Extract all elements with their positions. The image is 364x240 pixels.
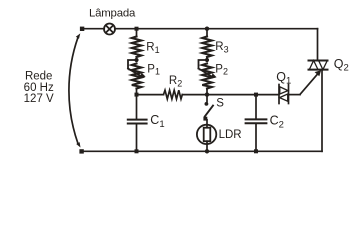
resistor R1	[132, 37, 142, 58]
resistor R3	[202, 37, 212, 58]
svg-text:LDR: LDR	[219, 129, 242, 141]
switch S top contact	[205, 102, 209, 106]
node left bottom (square terminal)	[79, 149, 83, 153]
wire P2 down to mid rail	[206, 89, 208, 95]
switch S bottom contact	[203, 117, 207, 121]
capacitor C2	[246, 119, 267, 123]
capacitor C1	[128, 120, 147, 124]
switch S blade	[205, 106, 213, 117]
node junction C2 top	[254, 93, 258, 97]
triac Q2 bottom bar	[309, 69, 328, 71]
wire mid rail S junction to C2	[207, 94, 256, 96]
node dot R1/P1 wiper	[134, 58, 138, 62]
triac Q2 top bar	[309, 60, 328, 62]
arrowhead bottom of arc	[76, 142, 80, 147]
node junction mid/S	[205, 92, 209, 96]
wire lead R3 to P2	[206, 57, 208, 60]
wire lead top of R1	[136, 31, 138, 37]
diac Q1 left plate	[278, 85, 280, 104]
wire right vertical MT2	[317, 29, 319, 61]
node junction top of R3	[205, 27, 209, 31]
wire bottom rail	[82, 150, 323, 152]
wire P1 down to mid rail	[136, 89, 138, 95]
wire lead R1 to P1	[136, 57, 138, 60]
potentiometer P2 body	[202, 64, 212, 89]
svg-text:R3: R3	[215, 41, 228, 54]
node dot R3/P2 wiper	[205, 58, 209, 62]
diac Q1 upper triangle	[280, 87, 288, 94]
wire top rail	[82, 28, 318, 30]
triac Q2 right triangle	[319, 61, 328, 70]
wire gate diagonal	[300, 73, 319, 94]
LDR body rectangle	[204, 128, 211, 142]
potentiometer P1 body	[132, 64, 142, 89]
wire lead C2 top	[255, 95, 257, 119]
svg-text:Lâmpada: Lâmpada	[89, 8, 136, 20]
arrowhead top of arc	[76, 33, 81, 38]
resistor R2	[164, 90, 183, 99]
svg-text:Rede: Rede	[25, 71, 53, 83]
svg-text:Q2: Q2	[334, 57, 349, 74]
wire lead S to LDR	[206, 120, 208, 128]
node junction LDR bottom	[205, 149, 209, 153]
wire MT1 vertical	[321, 70, 323, 152]
svg-text:127 V: 127 V	[24, 93, 54, 105]
wire mid rail C2 to diac	[256, 94, 278, 96]
diac Q1 lower triangle	[280, 94, 288, 101]
LDR circle	[197, 125, 216, 144]
svg-text:C2: C2	[270, 114, 284, 131]
wire mid rail left segment	[137, 94, 164, 96]
svg-text:P2: P2	[215, 63, 228, 76]
lamp (circle with X)	[104, 24, 115, 35]
svg-text:R2: R2	[169, 75, 182, 88]
node junction top of R1	[135, 27, 139, 31]
wire mid rail R2 to S junction	[182, 94, 207, 96]
triac Q2 left triangle	[309, 61, 318, 70]
diac Q1 right plate	[288, 85, 290, 104]
wire lead top of R3	[206, 29, 208, 37]
svg-text:S: S	[216, 98, 224, 110]
node junction C2 bottom	[254, 149, 258, 153]
node left top (square terminal)	[80, 27, 84, 31]
wire lead S top	[206, 95, 208, 102]
wire diac to gate diagonal	[289, 94, 301, 96]
svg-text:R1: R1	[146, 42, 159, 55]
wire lead C1 bottom	[136, 124, 138, 151]
svg-text:C1: C1	[150, 113, 164, 130]
gate arrowhead	[315, 70, 322, 76]
wire lead C1 top	[136, 95, 138, 119]
potentiometer P1 wiper hook	[128, 60, 137, 69]
svg-text:P1: P1	[147, 63, 160, 76]
node junction C1 bottom	[135, 149, 139, 153]
wire lead LDR bottom	[206, 141, 208, 151]
wire lead C2 bottom	[255, 124, 257, 151]
potentiometer P2 wiper hook	[199, 60, 208, 69]
node junction mid/C1	[135, 93, 139, 97]
AC source arc (Rede)	[69, 37, 78, 143]
